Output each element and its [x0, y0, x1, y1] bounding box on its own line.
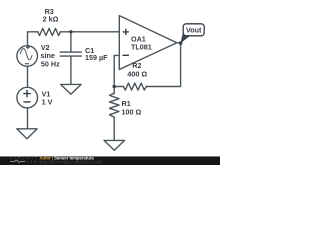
svg-text:http://circuitlab.com/c/e2x7a4: http://circuitlab.com/c/e2x7a46f — [40, 160, 103, 165]
Vout flag pointer — [180, 34, 189, 44]
CircuitLab logo wave — [10, 160, 25, 162]
Vout flag box — [183, 24, 204, 36]
resistor R2 — [123, 83, 146, 90]
svg-text:50 Hz: 50 Hz — [41, 59, 60, 68]
wire R1 to ground — [113, 117, 115, 140]
wire V2 to V1 — [27, 66, 29, 87]
op-amp U1 triangle — [119, 16, 177, 70]
V2 plus sign — [26, 46, 29, 49]
V1 plus sign — [24, 90, 30, 96]
svg-text:TL081: TL081 — [131, 43, 152, 52]
svg-text:2 kΩ: 2 kΩ — [43, 14, 59, 23]
watermark bar — [0, 156, 220, 165]
op-amp plus input sign — [123, 29, 128, 34]
svg-text:100 Ω: 100 Ω — [122, 107, 142, 116]
svg-text:400 Ω: 400 Ω — [127, 69, 147, 78]
op-amp output stub — [177, 42, 181, 44]
svg-text:LAB: LAB — [27, 159, 38, 164]
ground under V1 — [17, 129, 37, 139]
wire C1 to ground — [70, 56, 72, 84]
svg-text:Vout: Vout — [186, 26, 202, 35]
resistor R1 — [110, 93, 120, 117]
wire V2 top to R3 — [28, 32, 39, 46]
node junction R1/R2/inverting input — [112, 85, 116, 89]
svg-text:1 V: 1 V — [42, 97, 53, 106]
wire V1 to ground — [27, 108, 29, 129]
wire junction to R2 — [114, 86, 123, 88]
resistor R3 — [38, 28, 61, 35]
ground under R1 — [104, 140, 125, 150]
wire inverting input down to feedback junction — [114, 55, 119, 93]
op-amp minus input sign — [123, 54, 128, 56]
wire junction to C1 — [70, 32, 72, 52]
V2 minus sign — [25, 63, 28, 65]
capacitor C1 — [60, 52, 81, 56]
voltage source V1 — [17, 87, 38, 108]
svg-text:159 µF: 159 µF — [85, 53, 108, 62]
wire R2 to op-amp output — [146, 43, 180, 86]
ground under C1 — [61, 84, 82, 94]
node junction R3/C1 — [69, 30, 72, 33]
voltage source V2 — [17, 46, 38, 67]
node op-amp output — [179, 41, 183, 45]
wire R3 to op-amp + input — [61, 31, 120, 33]
V2 sine symbol — [20, 48, 32, 59]
V1 minus sign — [24, 101, 30, 103]
